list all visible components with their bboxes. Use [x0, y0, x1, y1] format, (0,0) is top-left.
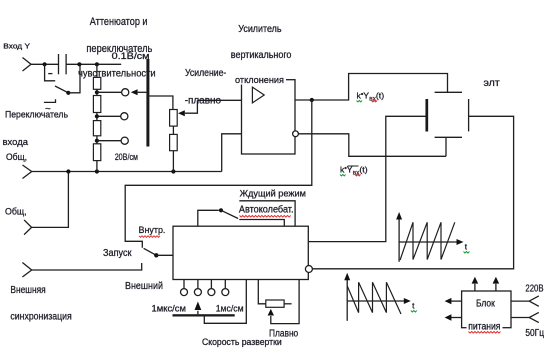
- node junction dot D: [66, 91, 70, 95]
- wire Rc to tap3: [96, 136, 98, 144]
- svg-text:Усилитель: Усилитель: [238, 24, 281, 35]
- wire 220V input: [511, 300, 529, 302]
- sweep output terminal circle: [305, 266, 312, 273]
- capacitor C coupling plate 1: [58, 54, 60, 74]
- svg-text:вертикального: вертикального: [231, 50, 292, 61]
- wire Rd to rail: [96, 161, 98, 172]
- svg-text:Ждущий режим: Ждущий режим: [240, 188, 306, 199]
- terminal circle tap1: [122, 89, 129, 96]
- svg-text:синхронизация: синхронизация: [10, 311, 71, 322]
- power supply box: [462, 291, 511, 328]
- wire tap2: [97, 115, 121, 117]
- svg-text:элт: элт: [484, 78, 501, 89]
- node rail dot 1: [66, 169, 70, 173]
- wire amp top output: [295, 74, 448, 101]
- contact line Автоколебат: [239, 220, 284, 227]
- mode switch arm: [221, 210, 238, 218]
- sweep box stub 4: [224, 280, 226, 289]
- svg-text:Общ,: Общ,: [6, 151, 27, 162]
- speed selector bar: [173, 314, 235, 316]
- node junction dot B: [77, 62, 81, 66]
- potentiometer gain lower half: [170, 134, 178, 150]
- fine pot wiper arrowhead: [268, 309, 274, 316]
- wire rail up to amplifier lower input: [222, 134, 242, 172]
- selector wiper shaft: [138, 91, 147, 93]
- power supply top stem 1: [474, 284, 476, 291]
- svg-text:Усиление-: Усиление-: [185, 67, 227, 79]
- resistor Rd: [93, 144, 100, 161]
- node trigger switch dot: [154, 253, 158, 257]
- trigger switch arm: [144, 248, 157, 255]
- wire trigger common to sweep box: [156, 254, 173, 256]
- op-amp box U1: [242, 80, 296, 154]
- output terminal circle amp: [293, 131, 299, 137]
- wire sweep to left plate: [308, 116, 427, 241]
- switch ground contact: [44, 99, 56, 102]
- wire Общ2 to rail: [32, 172, 69, 228]
- sweep box stub 1: [183, 280, 185, 289]
- wire speed bar to sweep box: [204, 280, 246, 324]
- wire between pot halves: [172, 126, 174, 134]
- wire internal trigger from amp junction: [125, 100, 312, 248]
- terminal circle tap2: [121, 113, 128, 120]
- node tap3 dot: [95, 139, 99, 143]
- potentiometer Плавно: [266, 300, 284, 307]
- node rail dot 3: [171, 169, 175, 173]
- svg-text:t: t: [412, 300, 415, 310]
- svg-text:Внешняя: Внешняя: [10, 285, 45, 296]
- wire input to capacitor: [31, 63, 58, 65]
- sweep box stub 3: [210, 280, 212, 289]
- svg-text:входа: входа: [3, 137, 29, 148]
- label t graph1: [464, 241, 470, 253]
- op-amp triangle symbol: [252, 87, 264, 103]
- terminal circle sweep 2: [194, 289, 201, 296]
- wire dot D up to dot B: [68, 64, 80, 93]
- label t graph2: [411, 300, 417, 312]
- svg-text:Переключатель: Переключатель: [5, 109, 68, 119]
- wire 50Hz input: [511, 317, 529, 319]
- power supply left stem 2: [451, 317, 462, 319]
- node junction dot A: [43, 62, 47, 66]
- svg-text:Запуск: Запуск: [103, 248, 132, 259]
- wire ladder top segment: [96, 64, 98, 77]
- label Внутр: [139, 225, 166, 237]
- node tap1 dot: [95, 90, 99, 94]
- svg-text:Внешний: Внешний: [125, 281, 163, 292]
- wire right plate to sweep output: [312, 116, 513, 268]
- svg-text:220В: 220В: [525, 284, 543, 295]
- switch arm input coupling: [55, 86, 68, 93]
- svg-text:k•Yвх(t): k•Yвх(t): [357, 90, 385, 102]
- label k Y vx t bottom: [340, 164, 368, 176]
- sweep generator box: [173, 226, 308, 279]
- node amp output junction dot: [310, 98, 314, 102]
- switch fixed contact bar: [48, 73, 52, 75]
- ground connector: [23, 165, 32, 179]
- graph2 horizontal axis arrowhead: [404, 298, 411, 304]
- svg-text:1мс/см: 1мс/см: [216, 303, 244, 314]
- wire pot bottom to rail: [172, 151, 174, 172]
- wire sweep box to fine pot: [258, 280, 266, 304]
- graph1 horizontal axis arrowhead: [457, 239, 464, 245]
- svg-text:Скорость развертки: Скорость развертки: [202, 336, 282, 347]
- svg-text:отклонения: отклонения: [235, 75, 284, 86]
- external sync connector: [22, 263, 31, 278]
- capacitor C coupling plate 2: [65, 54, 67, 74]
- mode switch stub: [198, 210, 219, 226]
- speed selector arrowhead: [195, 302, 202, 311]
- label питания: [468, 321, 500, 333]
- power supply left arrowhead 2: [445, 314, 452, 320]
- CRT bottom plate: [435, 136, 462, 138]
- graph2 vertical axis: [346, 278, 348, 321]
- wire tap1: [97, 91, 122, 93]
- terminal circle tap3: [121, 137, 128, 144]
- power supply top arrowhead 1: [472, 277, 479, 284]
- label Автоколебат: [239, 204, 294, 218]
- graph2 horizontal axis: [347, 300, 404, 302]
- svg-text:1мкс/см: 1мкс/см: [152, 303, 187, 314]
- label питания background: [467, 322, 503, 330]
- graph2 vertical axis arrowhead: [344, 273, 350, 281]
- connector 220V: [529, 296, 539, 306]
- label k Y vx t top: [357, 90, 385, 102]
- terminal circle sweep 1: [181, 289, 188, 296]
- svg-text:0.1В/см: 0.1В/см: [112, 51, 150, 61]
- svg-text:Блок: Блок: [476, 299, 495, 310]
- wire fine pot right stub: [284, 303, 292, 305]
- svg-text:50Гц: 50Гц: [525, 328, 544, 339]
- selector bar: [146, 59, 149, 147]
- svg-text:Автоколебат.: Автоколебат.: [239, 204, 294, 216]
- wire fine pot wiper loop: [271, 280, 299, 324]
- node tap2 dot: [95, 114, 99, 118]
- terminal circle sweep 3: [208, 289, 215, 296]
- wire Rb to tap2: [96, 113, 98, 121]
- svg-text:20В/см: 20В/см: [115, 152, 138, 163]
- node rail dot 2: [95, 169, 99, 173]
- wire Ra to tap1: [96, 89, 98, 95]
- power supply left stem 1: [451, 300, 462, 302]
- connector 50Hz: [529, 312, 539, 322]
- svg-text:питания: питания: [468, 321, 500, 332]
- pot wiper arrowhead: [178, 110, 185, 116]
- wire tap3: [97, 140, 121, 142]
- svg-text:t: t: [465, 241, 468, 251]
- svg-text:-плавно: -плавно: [185, 95, 221, 107]
- node junction dot C ladder top: [95, 62, 99, 66]
- node mode switch dot: [219, 208, 223, 212]
- ground connector 2: [24, 220, 32, 235]
- graph1 horizontal axis: [399, 241, 457, 243]
- svg-text:Внутр.: Внутр.: [139, 225, 166, 235]
- CRT right plate: [468, 99, 470, 131]
- graph1 vertical axis arrowhead: [396, 212, 402, 220]
- CRT top plate: [435, 91, 462, 93]
- wire external sync to contact: [32, 263, 142, 270]
- resistor Ra: [93, 77, 100, 89]
- resistor Rb: [93, 96, 100, 113]
- wire amp bottom output to bottom plate: [298, 134, 446, 157]
- potentiometer gain upper half: [170, 110, 178, 127]
- label отклонения background: [234, 76, 286, 85]
- CRT left plate: [425, 99, 428, 132]
- terminal circle sweep 4: [222, 289, 229, 296]
- graph1 sawtooth waveform: [400, 222, 455, 260]
- wire wiper to amplifier upper input: [197, 99, 241, 101]
- wire capacitor to attenuator: [66, 63, 121, 65]
- power supply left arrowhead 1: [445, 298, 452, 304]
- speed selector arrow stem: [197, 311, 199, 314]
- selector wiper arrowhead: [131, 89, 138, 95]
- svg-text:Вход Y: Вход Y: [3, 42, 30, 51]
- pot wiper shaft: [185, 100, 198, 113]
- wire switch leg from dot A: [45, 64, 56, 81]
- svg-text:чувствительности: чувствительности: [78, 68, 156, 80]
- power supply top arrowhead 2: [493, 277, 500, 284]
- wire bottom plate down: [445, 137, 447, 156]
- wire selector bar to pot: [149, 96, 173, 110]
- svg-text:Аттенюатор и: Аттенюатор и: [90, 16, 148, 28]
- ground rail wire: [32, 171, 222, 173]
- input connector Вход Y: [23, 58, 32, 72]
- contact line Ждущий режим: [239, 201, 295, 226]
- graph1 vertical axis: [398, 217, 400, 262]
- power supply top stem 2: [495, 284, 497, 291]
- sweep box stub 2: [197, 280, 199, 289]
- graph2 sawtooth waveform: [347, 282, 401, 314]
- resistor Rc: [93, 121, 100, 136]
- svg-text:Общ,: Общ,: [5, 205, 27, 216]
